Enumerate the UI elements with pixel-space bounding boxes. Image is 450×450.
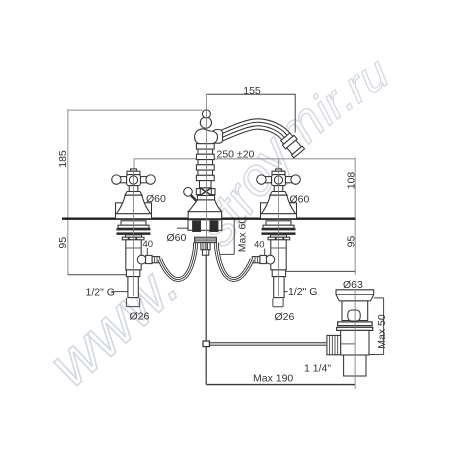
svg-text:1/2" G: 1/2" G xyxy=(288,286,317,298)
svg-text:1/2" G: 1/2" G xyxy=(86,287,115,299)
svg-text:40: 40 xyxy=(254,240,265,251)
svg-text:Ø60: Ø60 xyxy=(146,193,166,205)
svg-text:95: 95 xyxy=(57,237,69,249)
svg-text:250 ±20: 250 ±20 xyxy=(217,148,255,160)
svg-text:Ø26: Ø26 xyxy=(130,311,150,323)
svg-text:Max 60: Max 60 xyxy=(237,218,249,253)
svg-text:40: 40 xyxy=(143,239,154,250)
svg-text:Ø60: Ø60 xyxy=(290,193,310,205)
svg-text:108: 108 xyxy=(346,172,358,190)
svg-text:Ø63: Ø63 xyxy=(343,279,363,291)
svg-text:Max 50: Max 50 xyxy=(376,314,388,349)
svg-text:1 1/4": 1 1/4" xyxy=(304,363,331,375)
svg-text:Ø26: Ø26 xyxy=(275,311,295,323)
svg-text:Ø60: Ø60 xyxy=(167,232,187,244)
svg-text:185: 185 xyxy=(57,150,69,168)
svg-text:Max 190: Max 190 xyxy=(253,372,293,384)
svg-text:155: 155 xyxy=(243,85,261,97)
svg-text:95: 95 xyxy=(346,236,358,248)
